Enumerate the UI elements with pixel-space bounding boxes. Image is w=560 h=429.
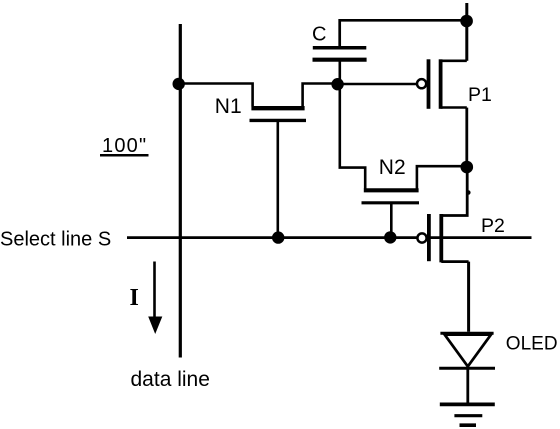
node: junction data line / N1 source [173, 78, 185, 90]
node: junction P1 drain / N2 drain / P2 source [461, 161, 474, 174]
diode OLED [439, 333, 495, 403]
stray junction speck on P2 source wire [466, 190, 471, 195]
svg-text:Select line S: Select line S [0, 228, 111, 250]
C bottom plate [313, 58, 367, 62]
C top plate [313, 46, 367, 50]
N2 gate bar [362, 201, 420, 204]
node: junction select line / N2 gate [384, 231, 396, 243]
N2 channel bar [364, 188, 419, 192]
OLED cathode wire [466, 369, 469, 403]
wire select line (horizontal) [127, 236, 532, 239]
wire data line to N1 source [180, 84, 253, 107]
N2 gate wire to select line [390, 204, 393, 236]
node: junction top rail / P1 source [460, 15, 473, 28]
transistor N1 [250, 84, 339, 237]
P2 channel bar [439, 214, 443, 262]
svg-text:OLED: OLED [506, 334, 558, 355]
ground [440, 404, 495, 425]
svg-text:P1: P1 [468, 84, 492, 106]
P1 source lead [441, 59, 467, 62]
P1 channel bar [439, 59, 443, 109]
node: junction select line / N1 gate [272, 231, 284, 243]
svg-text:C: C [312, 24, 326, 46]
N2 source lead from storage node [340, 84, 365, 189]
N1 gate bar [250, 119, 307, 122]
P1 gate bubble [417, 79, 426, 88]
P2 drain wire down to OLED [467, 262, 470, 332]
P2 source wire from node [441, 167, 467, 216]
OLED triangle [445, 335, 491, 367]
svg-text:P2: P2 [481, 215, 505, 237]
svg-text:data line: data line [131, 368, 210, 391]
N1 gate wire to select line [276, 122, 279, 237]
svg-text:100": 100" [102, 135, 147, 157]
OLED cathode bar [439, 367, 495, 370]
P2 drain lead [441, 260, 468, 263]
transistor P2 [417, 167, 470, 332]
svg-text:I: I [130, 285, 139, 311]
transistor N2 [340, 84, 467, 236]
wire supply stub above P1 [465, 3, 468, 61]
N2 drain lead [417, 166, 467, 188]
P1 gate bar [427, 59, 431, 109]
P1 gate wire from storage node [338, 83, 417, 86]
node: storage node junction (N1 drain / C / N2 / P1 gate) [331, 78, 343, 90]
OLED anode bar [440, 332, 493, 335]
N1 drain lead [303, 84, 338, 107]
P2 gate bubble [417, 233, 426, 242]
P1 drain wire down [465, 108, 468, 167]
C bottom lead [338, 61, 341, 84]
P1 drain lead [441, 106, 467, 109]
svg-text:N1: N1 [215, 95, 242, 118]
current arrow (down) [148, 262, 162, 335]
N1 channel bar [251, 106, 304, 110]
wire data line (vertical) [179, 24, 182, 358]
svg-text:N2: N2 [379, 156, 406, 179]
capacitor C [313, 20, 467, 84]
label: 100" reference numeral [100, 135, 149, 157]
P2 gate bar [427, 214, 431, 261]
C top lead + top rail to P1 source [340, 20, 467, 48]
transistor P1 [338, 59, 467, 166]
